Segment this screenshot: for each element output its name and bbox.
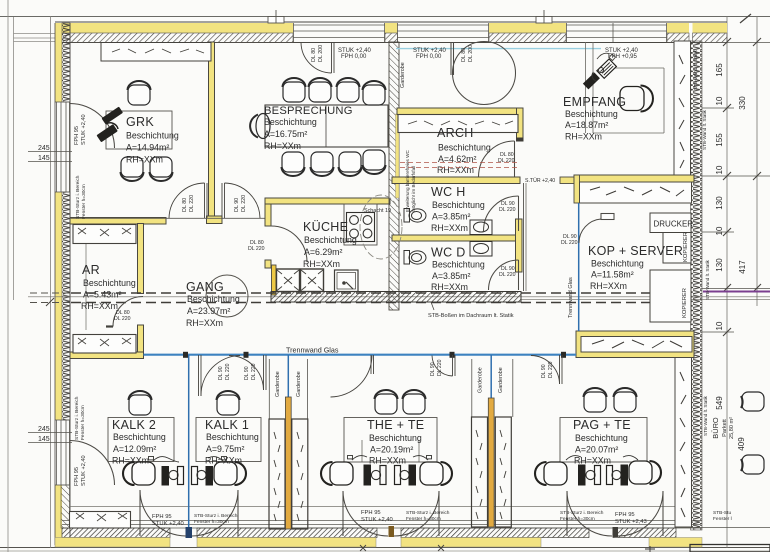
wall base block at GANG doors (207, 216, 223, 224)
svg-text:Beschichtung: Beschichtung (438, 143, 491, 153)
svg-text:ARCH: ARCH (437, 126, 474, 140)
svg-text:A=18.87m²: A=18.87m² (565, 120, 608, 130)
entry double door swing circle (451, 42, 516, 105)
garderobe pair A blue stub (287, 355, 289, 398)
wall ARCH east yellow (517, 108, 524, 138)
KOP Trennwand glass vertical (578, 203, 580, 331)
bottom-left cabinet with X (70, 512, 131, 529)
svg-text:330: 330 (738, 96, 747, 110)
svg-text:STB-Sturz i. Bereich: STB-Sturz i. Bereich (75, 175, 81, 219)
svg-text:Garderobe: Garderobe (275, 371, 281, 397)
svg-text:A=3.85m²: A=3.85m² (432, 212, 470, 222)
svg-text:A=3.85m²: A=3.85m² (432, 271, 470, 281)
svg-text:A=11.58m²: A=11.58m² (591, 270, 634, 280)
door AR arc (113, 297, 143, 327)
svg-text:Fenster h=30cm: Fenster h=30cm (81, 184, 87, 219)
svg-text:10: 10 (715, 321, 724, 330)
svg-text:KÜCHE: KÜCHE (303, 220, 348, 234)
sheet frame bottom line (0, 547, 770, 549)
right wall top cavity small (Buero top) (703, 41, 728, 43)
right exterior wall hatch (691, 41, 703, 530)
wall AR east upper (138, 224, 144, 294)
svg-text:Garderobe: Garderobe (400, 62, 406, 88)
svg-text:Beschichtung: Beschichtung (432, 260, 485, 270)
BUERO rotated label (711, 417, 735, 439)
svg-text:FPH 0,00: FPH 0,00 (416, 54, 442, 60)
svg-text:DL 220: DL 220 (548, 361, 554, 378)
svg-text:Beschichtung: Beschichtung (83, 278, 136, 288)
svg-text:RH=XXm: RH=XXm (431, 282, 468, 292)
wall Kueche west upper (265, 198, 271, 226)
svg-text:245: 245 (38, 145, 50, 152)
PAG workstation right (607, 466, 613, 485)
svg-text:FPH +0,95: FPH +0,95 (608, 54, 638, 60)
svg-text:25,80 m²: 25,80 m² (729, 417, 735, 439)
svg-text:STUK +2,40: STUK +2,40 (361, 517, 393, 523)
GANG closet box 2 (301, 269, 324, 292)
svg-text:RH=XXm: RH=XXm (81, 301, 118, 311)
KALK1 workstation (192, 467, 198, 485)
bottom french doors KALK (140, 490, 238, 536)
garderobe pair B closet left (472, 417, 488, 527)
svg-text:DL 90: DL 90 (430, 362, 436, 376)
svg-text:DL 220: DL 220 (561, 240, 578, 246)
bottom french doors PAG (567, 491, 663, 536)
GRK desk (106, 111, 172, 149)
svg-text:145: 145 (38, 155, 50, 162)
svg-text:STB-Wand lt. Statik: STB-Wand lt. Statik (702, 109, 707, 150)
svg-text:KOP + SERVER: KOP + SERVER (588, 244, 683, 258)
vent tick box 2 (536, 17, 552, 24)
PAG chairs top (584, 388, 607, 412)
svg-text:549: 549 (715, 396, 724, 410)
svg-text:DL 220: DL 220 (499, 207, 516, 213)
wall KOP north yellow (574, 175, 694, 182)
PAG bottom chair left (535, 462, 567, 485)
svg-text:RH=XXm: RH=XXm (369, 456, 406, 466)
WC D label (431, 246, 485, 293)
left wall inner face line (69, 23, 71, 545)
garderobe pair A orange bar (285, 397, 291, 529)
GRK top cabinet (101, 43, 211, 62)
svg-text:PAG + TE: PAG + TE (573, 418, 631, 432)
svg-text:Schacht 19: Schacht 19 (364, 208, 391, 214)
top wall band outline (55, 21, 727, 23)
svg-text:Beschichtung: Beschichtung (113, 432, 166, 442)
DRUCKER box (650, 213, 691, 233)
bottom door notes (152, 510, 647, 527)
svg-text:Erweiterung barrierefreies WC: Erweiterung barrierefreies WC (405, 150, 410, 212)
KALK1 chair top (217, 391, 240, 415)
door KOP from corridor (579, 214, 614, 244)
svg-text:FPH 95: FPH 95 (152, 514, 172, 520)
svg-text:165: 165 (715, 63, 724, 77)
THE+TE label (367, 418, 424, 466)
svg-text:STUK +2,40: STUK +2,40 (152, 521, 184, 527)
door KALK2 west window arc (70, 441, 115, 486)
svg-text:DL 80: DL 80 (461, 48, 467, 62)
svg-text:DL 90: DL 90 (218, 366, 224, 380)
svg-text:409: 409 (737, 437, 746, 451)
AR cabinet top with X (73, 225, 136, 244)
svg-text:DL 220: DL 220 (437, 359, 443, 376)
garderobe pair B orange bar (488, 398, 494, 527)
svg-text:Beschichtung: Beschichtung (369, 433, 422, 443)
vent tick box 1 (268, 17, 284, 24)
WC H label (431, 185, 485, 233)
THE bottom chair right (420, 462, 452, 485)
svg-text:STB-Wand lt. Statik: STB-Wand lt. Statik (703, 395, 708, 436)
svg-text:DL 220: DL 220 (248, 246, 265, 252)
GRK chair top (128, 81, 151, 105)
svg-text:STB-Wand lt. Statik: STB-Wand lt. Statik (705, 259, 710, 300)
corridor dashed line north (71, 292, 690, 294)
top window Besprechung (293, 23, 385, 42)
KALK divider glass line (188, 355, 190, 536)
svg-text:FPH 95: FPH 95 (74, 467, 80, 486)
THE bottom chair left (321, 462, 353, 485)
svg-text:RH=XXm: RH=XXm (565, 132, 602, 142)
WC-H sink (470, 220, 492, 235)
title block corner (690, 545, 770, 552)
svg-text:Fenster l: Fenster l (713, 516, 732, 522)
svg-text:Beschichtung: Beschichtung (126, 131, 179, 141)
THE desk (344, 418, 437, 463)
left margin line (50, 16, 52, 548)
sheet left edge line (7, 0, 9, 552)
KOPIERER box 2 (650, 270, 691, 322)
garderobe A flank lines (268, 359, 270, 419)
door PAG at Trennwand (531, 355, 562, 384)
AR cabinet bottom with X (73, 335, 136, 354)
svg-text:STUK +2,43: STUK +2,43 (615, 519, 647, 525)
svg-text:Trennwand Glas: Trennwand Glas (286, 346, 339, 355)
svg-text:STUK +2,40: STUK +2,40 (81, 455, 87, 486)
svg-text:STB-Boßen im Dachraum lt. Stat: STB-Boßen im Dachraum lt. Statik (428, 313, 514, 319)
GRK chairs bottom (121, 157, 144, 181)
wall GRK/AR south (yellow) (70, 218, 166, 225)
svg-text:S.TÜR +2,40: S.TÜR +2,40 (525, 177, 555, 184)
svg-text:Beschichtung: Beschichtung (432, 200, 485, 210)
KOP north cabinet (580, 182, 692, 203)
cyan line top (Empfang/entry) (396, 48, 601, 50)
svg-text:DL 220: DL 220 (114, 316, 131, 322)
svg-text:WC H: WC H (431, 185, 466, 199)
ARCH top cabinet (398, 115, 518, 133)
svg-text:STB-Sturz i. Bereich: STB-Sturz i. Bereich (74, 396, 80, 440)
top window notes (338, 48, 639, 60)
bottom frame tick marks (360, 545, 444, 551)
top wall yellow+hatch segment right b (over Buero) (693, 23, 728, 43)
svg-text:10: 10 (715, 96, 724, 105)
EMPFANG label (563, 95, 626, 142)
garderobe B flank lines (471, 359, 473, 417)
WC-H toilet (404, 209, 426, 223)
right dimension column numbers (715, 63, 747, 451)
PAG+TE label (573, 418, 631, 466)
svg-text:A=20.19m²: A=20.19m² (370, 445, 413, 455)
BESPRECHUNG table (265, 105, 388, 147)
wall AR south (70, 352, 144, 359)
svg-text:DL 90: DL 90 (234, 198, 240, 212)
wall Kueche west lower stub (265, 260, 271, 268)
top window entry door opening (397, 23, 489, 42)
BESPRECHUNG chairs top row (283, 78, 306, 102)
left exterior wall segment middle (55, 192, 70, 420)
svg-text:A=23.97m²: A=23.97m² (187, 306, 230, 316)
bottom parapet line (70, 506, 676, 508)
svg-text:Fenster h=30cm: Fenster h=30cm (194, 519, 229, 525)
left exterior wall yellow+hatch segment top (55, 23, 70, 102)
left wall window KALK2 (55, 420, 70, 485)
wall AR east lower (138, 325, 144, 353)
svg-text:EMPFANG: EMPFANG (563, 95, 626, 109)
door Besprechung top window: leaf+arc (301, 42, 334, 73)
right dimension tick slash top (740, 14, 751, 23)
KUECHE stove (347, 213, 375, 242)
svg-text:Fenster h=30cm: Fenster h=30cm (406, 516, 441, 522)
WC-D toilet (404, 251, 426, 265)
KALK2 label (112, 418, 166, 466)
GRK label (126, 115, 179, 165)
BESPRECHUNG chairs bottom row (282, 152, 305, 176)
door WC-D arc (489, 260, 519, 290)
purple line (703, 291, 770, 293)
svg-text:Beschichtung: Beschichtung (565, 109, 618, 119)
garderobe pair B closet right (495, 417, 511, 527)
vestibule top wall stub (560, 177, 577, 184)
svg-text:möglich! im Bedarfsfall: möglich! im Bedarfsfall (411, 166, 416, 212)
svg-text:A=12.09m²: A=12.09m² (113, 444, 156, 454)
svg-text:DL 220: DL 220 (498, 158, 515, 164)
svg-text:417: 417 (738, 260, 747, 274)
bottom exterior band window lines (62, 521, 700, 529)
svg-text:Parkett: Parkett (722, 419, 728, 437)
BUERO chair 1 (741, 392, 764, 411)
Schacht cloud (360, 195, 402, 259)
door THE+TE at Trennwand (left) (331, 355, 374, 397)
svg-text:DL 220: DL 220 (251, 363, 257, 380)
svg-text:STB-Sturz i. Bereich: STB-Sturz i. Bereich (560, 510, 604, 516)
svg-text:WC D: WC D (431, 246, 466, 260)
wall ARCH north yellow (397, 108, 523, 115)
svg-text:RH=XXm: RH=XXm (303, 259, 340, 269)
KALK1 label (205, 418, 259, 466)
AR interior line (85, 244, 87, 330)
top wall yellow+hatch segment 1 (56, 23, 293, 43)
wall WC-H/WC-D divider yellow (392, 235, 520, 241)
THE workstation right (395, 466, 401, 485)
Trennwand Glas horizontal (144, 354, 577, 356)
garderobe pair A closet right (292, 419, 308, 529)
yellow strip along WC shaft wall (396, 114, 400, 198)
svg-text:STB-Stu: STB-Stu (713, 510, 731, 516)
left exterior wall segment bottom (55, 485, 70, 545)
THE chairs top (375, 390, 398, 414)
top wall pillar between Besprechung and entry (385, 23, 398, 43)
KOP+SERVER label (588, 244, 683, 291)
GANG top line (70, 217, 271, 219)
svg-text:DL 220: DL 220 (225, 363, 231, 380)
door Kueche arc (271, 226, 307, 262)
svg-text:Fenster h=30cm: Fenster h=30cm (80, 405, 86, 440)
GRK office chair dark (96, 107, 123, 143)
wall GRK|Besprechung (209, 42, 215, 218)
beam arrow + note (431, 302, 434, 310)
BESPRECHUNG end chair (250, 114, 270, 139)
svg-text:Beschichtung: Beschichtung (591, 259, 644, 269)
BESPRECHUNG label (264, 105, 353, 151)
KALK2 desk (108, 418, 174, 462)
KALK2 workstation (162, 466, 170, 486)
KALK1 bottom chair (214, 462, 246, 485)
door KALK1 at Trennwand (229, 355, 266, 390)
svg-text:RH=XXm: RH=XXm (205, 456, 242, 466)
svg-text:DL 80: DL 80 (182, 198, 188, 212)
KUECHE counter (344, 204, 377, 245)
KUECHE label (303, 220, 357, 269)
trennwand door posts (183, 352, 566, 358)
svg-text:STB-Sturz i. Bereich: STB-Sturz i. Bereich (194, 513, 238, 519)
wall WC-H north yellow (392, 177, 520, 184)
AR label (81, 263, 136, 311)
svg-text:RH=XXm: RH=XXm (590, 281, 627, 291)
svg-text:RH=XXm: RH=XXm (186, 318, 223, 328)
top wall yellow+hatch segment right a (667, 23, 689, 43)
svg-text:A=6.29m²: A=6.29m² (304, 247, 342, 257)
door ARCH arc (479, 141, 515, 177)
door THE+TE at Trennwand (right leaf) (432, 355, 455, 376)
yellow post at GANG closets (272, 265, 277, 295)
svg-text:Beschichtung: Beschichtung (187, 294, 240, 304)
svg-text:145: 145 (38, 436, 50, 443)
hatched wall Besprechung|WC shaft column (389, 42, 399, 310)
svg-text:DL 200: DL 200 (468, 45, 474, 62)
svg-text:245: 245 (38, 426, 50, 433)
wall WC east vertical yellow (516, 219, 523, 272)
EMPFANG reception counter outline (586, 42, 665, 133)
right dimension line outer2 (756, 16, 758, 306)
svg-text:FPH 95: FPH 95 (74, 126, 80, 145)
top window Empfang (566, 23, 667, 42)
garderobe pair B blue stub (490, 355, 492, 399)
svg-text:10: 10 (715, 226, 724, 235)
svg-text:RH=XXm: RH=XXm (437, 165, 474, 175)
door WC-H arc (484, 196, 519, 231)
svg-text:KALK 1: KALK 1 (205, 418, 249, 432)
wall Kueche north (265, 198, 390, 204)
svg-text:A=9.75m²: A=9.75m² (206, 444, 244, 454)
GANG circle mark (206, 275, 248, 317)
PAG bottom chair right (629, 461, 661, 484)
svg-text:A=20.07m²: A=20.07m² (575, 445, 618, 455)
right wall cavity (Empfang) (674, 41, 691, 177)
svg-text:RH=XXm: RH=XXm (264, 141, 301, 151)
right wall cavity (PAG/Buero) (675, 358, 692, 528)
svg-text:Beschichtung: Beschichtung (304, 235, 357, 245)
svg-text:Fenster h=30cm: Fenster h=30cm (560, 516, 595, 522)
door GRK from GANG: leaf (169, 183, 207, 218)
svg-text:Garderobe: Garderobe (296, 371, 302, 397)
svg-text:RH=XXm: RH=XXm (431, 223, 468, 233)
KOPIERER box 1 (663, 233, 691, 264)
door GRK west window arc (70, 104, 115, 149)
left dimension 245/145 bottom (28, 426, 72, 443)
svg-text:Beschichtung: Beschichtung (206, 432, 259, 442)
GANG shower box (335, 270, 359, 292)
KOP south niche yellow U with cabinet (576, 331, 694, 358)
PAG desk (560, 418, 647, 463)
bottom french doors THE (343, 491, 439, 536)
svg-text:130: 130 (715, 258, 724, 272)
EMPFANG chair (620, 86, 653, 112)
svg-text:155: 155 (715, 133, 724, 147)
svg-text:DL 90: DL 90 (541, 364, 547, 378)
svg-text:FPH 95: FPH 95 (615, 512, 635, 518)
BUERO chair 2 (741, 455, 764, 474)
svg-text:AR: AR (82, 263, 100, 277)
GANG label (186, 280, 240, 328)
right dimension line outer (726, 16, 728, 548)
svg-text:STB-Sturz i. Bereich: STB-Sturz i. Bereich (406, 510, 450, 516)
svg-text:DL 200: DL 200 (318, 45, 324, 62)
STB beam dark hatch (271, 292, 521, 303)
svg-text:Beschichtung: Beschichtung (264, 117, 317, 127)
svg-text:DL 220: DL 220 (189, 195, 195, 212)
svg-text:A=14.94m²: A=14.94m² (126, 143, 169, 153)
KALK1 desk (196, 418, 261, 462)
corridor center line (28, 296, 770, 298)
svg-text:THE + TE: THE + TE (367, 418, 424, 432)
svg-text:FPH 0,00: FPH 0,00 (341, 54, 367, 60)
left dimension 245/145 top (28, 145, 72, 162)
KALK2 bottom chair (123, 462, 155, 485)
left wall window GRK (55, 102, 70, 192)
sheet frame top line (0, 16, 770, 18)
PAG workstation left (578, 465, 586, 486)
svg-text:130: 130 (715, 196, 724, 210)
GANG closet box 1 (277, 269, 300, 292)
svg-text:DL 90: DL 90 (244, 366, 250, 380)
svg-text:BÜRO: BÜRO (711, 417, 720, 439)
svg-text:FPH 95: FPH 95 (361, 510, 381, 516)
right dimension ticks (676, 43, 770, 528)
svg-text:BESPRECHUNG: BESPRECHUNG (264, 105, 353, 117)
ARCH label (437, 126, 491, 175)
svg-text:RH=XXm: RH=XXm (574, 456, 611, 466)
bottom band hatch segments (62, 528, 170, 538)
svg-text:A=16.75m²: A=16.75m² (264, 129, 307, 139)
KALK2 chair top (129, 391, 152, 415)
svg-text:DL 220: DL 220 (499, 272, 516, 278)
sheet left inner tick line (13, 17, 15, 300)
svg-text:STB-Wand lt. Statik: STB-Wand lt. Statik (693, 49, 698, 90)
svg-text:RH=XXm: RH=XXm (112, 456, 149, 466)
svg-text:10: 10 (715, 165, 724, 174)
svg-text:Garderobe: Garderobe (498, 367, 504, 393)
WC vestibule wall lines (523, 183, 525, 291)
svg-text:Beschichtung: Beschichtung (575, 433, 628, 443)
svg-text:KALK 2: KALK 2 (112, 418, 156, 432)
svg-text:STUK +2,40: STUK +2,40 (81, 114, 87, 145)
svg-text:Trennwand Glas: Trennwand Glas (568, 277, 574, 318)
door KALK2 at Trennwand (199, 355, 241, 396)
red WC note (405, 150, 416, 212)
top wall yellow+hatch segment over Empfang-left (489, 23, 566, 43)
door Besprechung from GANG: leaf (222, 183, 260, 218)
EMPFANG desk equipment (583, 59, 617, 92)
KALK divider door post (186, 527, 193, 538)
